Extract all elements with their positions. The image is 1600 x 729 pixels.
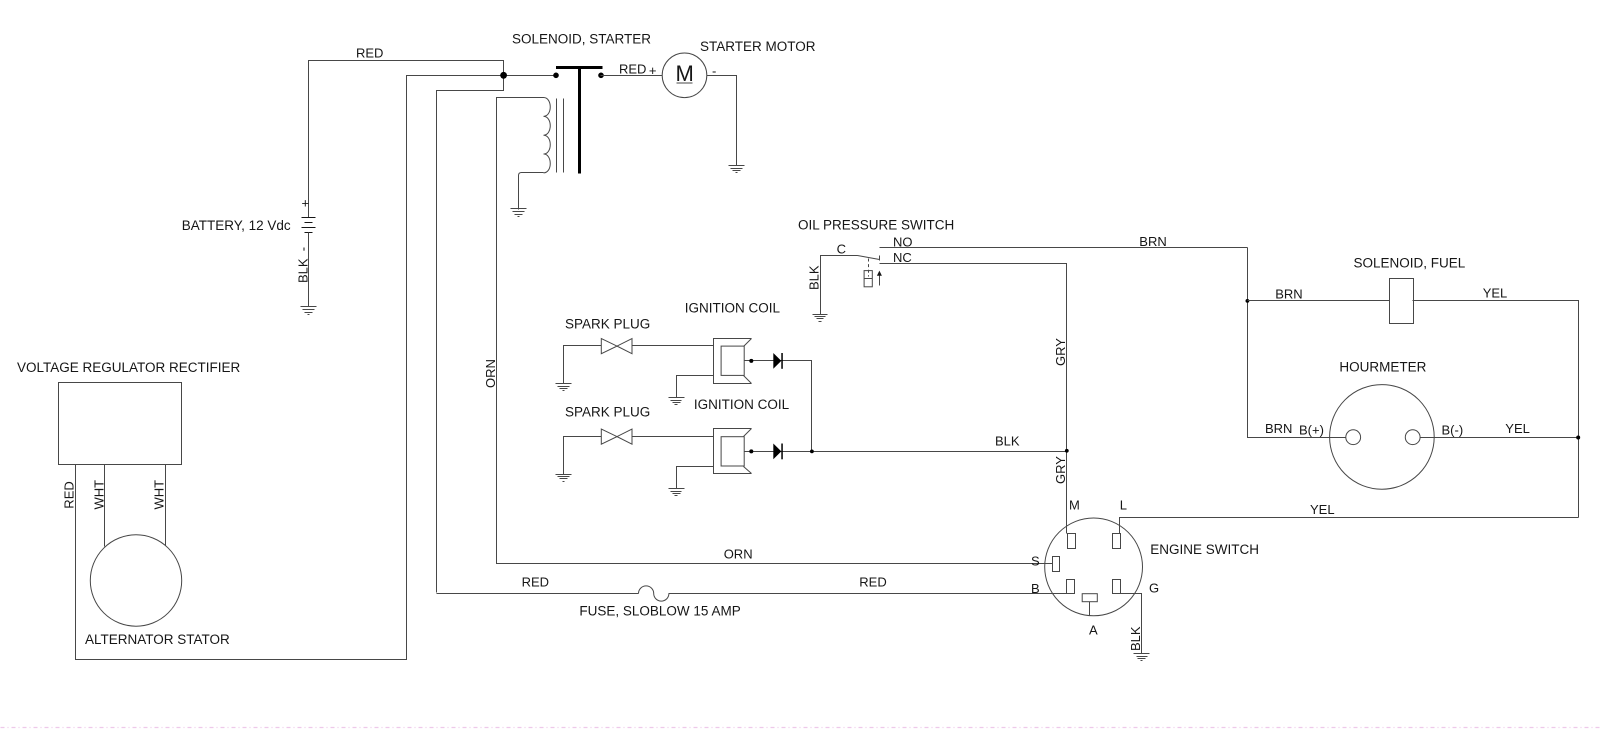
ground ignition coil 1 <box>669 398 685 405</box>
svg-text:NC: NC <box>893 250 912 265</box>
oil pressure switch actuator body <box>864 271 872 287</box>
svg-text:RED: RED <box>522 575 549 590</box>
engine switch pin B <box>1067 580 1075 594</box>
svg-text:RED: RED <box>356 46 383 61</box>
solenoid starter contact dot left <box>553 73 559 79</box>
ignition coil 1 core outline <box>714 339 752 384</box>
svg-text:BRN: BRN <box>1265 421 1292 436</box>
wire regulator RED down, along bottom, up to solenoid junction node <box>76 76 557 660</box>
svg-text:YEL: YEL <box>1310 502 1335 517</box>
svg-text:YEL: YEL <box>1505 421 1530 436</box>
wire spark plug 2 ground lead <box>564 437 602 475</box>
wire solenoid coil bottom to ground <box>519 173 544 210</box>
svg-text:BLK: BLK <box>995 434 1020 449</box>
hourmeter terminal B+ <box>1346 430 1361 445</box>
svg-text:S: S <box>1031 554 1040 569</box>
svg-text:SOLENOID, FUEL: SOLENOID, FUEL <box>1354 255 1466 270</box>
svg-text:+: + <box>302 196 310 211</box>
svg-text:YEL: YEL <box>1483 285 1508 300</box>
svg-text:GRY: GRY <box>1053 456 1068 484</box>
ground solenoid coil <box>511 209 527 217</box>
svg-text:BLK: BLK <box>1128 626 1143 651</box>
ground ignition coil 2 <box>669 489 685 496</box>
svg-text:OIL PRESSURE SWITCH: OIL PRESSURE SWITCH <box>798 218 954 233</box>
svg-text:B(+): B(+) <box>1299 423 1324 438</box>
spark plug 2 gap symbol <box>601 429 632 444</box>
svg-text:VOLTAGE REGULATOR RECTIFIER: VOLTAGE REGULATOR RECTIFIER <box>17 360 241 375</box>
svg-text:M: M <box>676 61 694 86</box>
battery B1 plates <box>302 218 316 233</box>
wire ignition coil 1 ground lead <box>677 376 714 398</box>
svg-text:HOURMETER: HOURMETER <box>1339 360 1426 375</box>
starter motor M underline <box>677 82 693 84</box>
svg-text:BATTERY, 12 Vdc: BATTERY, 12 Vdc <box>182 218 291 233</box>
svg-text:M: M <box>1069 498 1080 513</box>
wire BLK engine switch G to ground <box>1120 594 1142 654</box>
engine switch pin L <box>1113 534 1121 549</box>
oil pressure switch arm <box>858 256 880 260</box>
wire YEL bottom run to engine switch L <box>1120 518 1579 534</box>
oil pressure switch actuator arrow <box>877 271 882 286</box>
wire BRN junction to fuel solenoid <box>1248 300 1390 302</box>
svg-text:-: - <box>712 63 716 78</box>
wire spark plug 2 to ignition coil 2 <box>633 436 714 438</box>
junction node battery/alternator/fuse <box>500 72 507 79</box>
diode CR1 <box>773 353 783 369</box>
svg-text:A: A <box>1089 623 1098 638</box>
wire RED fuse to B pin <box>669 593 1067 595</box>
wire BLK ignition coil 2 output to GRY junction <box>745 451 1067 453</box>
wire BRN oil switch NO to fuel solenoid branch <box>880 247 1248 249</box>
svg-text:RED: RED <box>859 575 886 590</box>
svg-text:IGNITION COIL: IGNITION COIL <box>685 301 781 316</box>
page border dash-dot line <box>1 727 1600 729</box>
svg-text:ENGINE SWITCH: ENGINE SWITCH <box>1150 542 1259 557</box>
svg-text:SOLENOID, STARTER: SOLENOID, STARTER <box>512 32 651 47</box>
oil pressure switch contact tick <box>879 256 881 261</box>
node ignition coil 1 output dot <box>749 359 753 363</box>
wire YEL fuel solenoid to right bus <box>1413 301 1579 518</box>
oil pressure switch actuator dashed link <box>868 259 870 277</box>
svg-text:BLK: BLK <box>807 265 822 290</box>
node ignition coil 2 output dot <box>749 449 753 453</box>
node BRN junction dot <box>1246 299 1250 303</box>
starter motor M1 circle <box>662 53 707 98</box>
wire ignition coil 1 output through diode down to junction <box>745 361 812 452</box>
node YEL junction dot <box>1576 436 1580 440</box>
engine switch pin M <box>1068 534 1076 549</box>
engine switch pin G <box>1113 580 1121 594</box>
wire WHT right regulator to stator <box>165 465 167 546</box>
node diode junction dot <box>810 450 814 454</box>
ground engine switch <box>1134 654 1150 661</box>
wire hourmeter B- to YEL bus <box>1421 437 1579 439</box>
wire starter motor - to ground <box>707 76 737 166</box>
wire RED solenoid contact to starter motor + <box>601 75 663 77</box>
ignition coil 2 core outline <box>714 429 752 474</box>
svg-text:GRY: GRY <box>1053 338 1068 366</box>
svg-text:FUSE, SLOBLOW 15 AMP: FUSE, SLOBLOW 15 AMP <box>579 603 740 618</box>
engine switch circle <box>1045 518 1143 616</box>
svg-text:ORN: ORN <box>483 359 498 388</box>
voltage regulator rectifier box <box>59 383 182 465</box>
wire RED fuse feed up to solenoid junction <box>437 76 504 593</box>
wire RED fuse run to engine switch B <box>437 593 639 595</box>
wire RED battery+ up and over to solenoid junction <box>309 61 504 218</box>
solenoid starter core line 1 <box>556 99 558 173</box>
svg-text:C: C <box>837 242 846 257</box>
svg-text:RED: RED <box>62 481 77 508</box>
wire spark plug 1 to ignition coil 1 <box>633 345 714 347</box>
svg-text:STARTER MOTOR: STARTER MOTOR <box>700 39 816 54</box>
wire battery- to ground <box>308 233 310 307</box>
ground spark plug 1 <box>556 384 572 391</box>
engine switch pin A <box>1082 594 1097 616</box>
ground oil pressure switch <box>813 315 828 322</box>
ground starter motor <box>729 166 745 173</box>
fuse F1 squiggle <box>639 586 669 601</box>
svg-text:B: B <box>1031 581 1040 596</box>
svg-text:BRN: BRN <box>1275 286 1302 301</box>
node BLK/GRY junction dot <box>1065 449 1069 453</box>
svg-text:B(-): B(-) <box>1442 423 1464 438</box>
wire oil pressure switch common to ground <box>821 256 858 315</box>
wire BRN vertical to hourmeter B+ <box>1248 248 1346 438</box>
svg-text:SPARK PLUG: SPARK PLUG <box>565 316 650 331</box>
svg-text:G: G <box>1149 580 1159 595</box>
svg-text:BRN: BRN <box>1139 234 1166 249</box>
solenoid starter plunger bar horizontal <box>556 66 603 69</box>
svg-text:RED: RED <box>619 62 646 77</box>
spark plug 1 gap symbol <box>601 339 632 354</box>
solenoid starter contact dot right <box>598 73 604 79</box>
diode CR2 <box>773 444 783 460</box>
hourmeter terminal B- <box>1405 430 1420 445</box>
hourmeter circle <box>1330 385 1435 490</box>
svg-text:WHT: WHT <box>152 480 167 510</box>
wire spark plug 1 ground lead <box>564 346 602 384</box>
svg-text:ORN: ORN <box>724 547 753 562</box>
fuel solenoid body <box>1390 279 1414 324</box>
solenoid starter plunger bar vertical <box>578 66 581 174</box>
svg-text:ALTERNATOR STATOR: ALTERNATOR STATOR <box>85 632 230 647</box>
solenoid starter core line 2 <box>563 99 565 173</box>
wire ignition coil 2 ground lead <box>677 467 714 489</box>
ground battery <box>301 307 317 315</box>
wire GRY oil switch NC down to engine switch M <box>880 264 1067 534</box>
engine switch pin S <box>1053 557 1060 572</box>
solenoid starter coil winding <box>544 98 551 173</box>
ground spark plug 2 <box>556 475 572 482</box>
svg-text:+: + <box>649 63 657 78</box>
svg-text:IGNITION COIL: IGNITION COIL <box>694 397 790 412</box>
wire WHT left regulator to stator <box>104 465 106 547</box>
svg-text:SPARK PLUG: SPARK PLUG <box>565 405 650 420</box>
svg-text:L: L <box>1120 498 1127 513</box>
wire ORN solenoid coil top down to engine switch S <box>497 98 1053 564</box>
alternator stator circle <box>90 535 181 626</box>
